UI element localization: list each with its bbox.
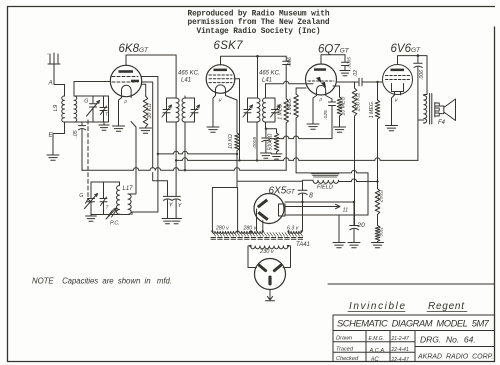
L9 label	[53, 104, 59, 111]
svg-text:30 KΩ: 30 KΩ	[147, 103, 153, 118]
IF2 primary coil	[257, 98, 260, 122]
heater wire	[302, 202, 304, 231]
6SK7 top cap wire	[221, 56, 287, 65]
tube 6Q7 envelope	[306, 64, 337, 95]
6V6 cathode ground wire	[392, 95, 395, 126]
resistor 10MEG wire	[333, 86, 340, 97]
ground 500K	[271, 154, 282, 159]
transformer primary 280V a	[212, 231, 236, 233]
svg-text:10 KΩ: 10 KΩ	[228, 134, 234, 149]
svg-text:500 KΩ: 500 KΩ	[268, 133, 274, 150]
cap 20 label	[357, 222, 366, 229]
IF1 primary coil	[176, 98, 179, 122]
mains lead left	[248, 246, 257, 268]
ground 50ohm	[372, 243, 384, 248]
cell traced date	[391, 347, 409, 353]
6K8 plate bar	[119, 70, 134, 73]
resistor 500K	[274, 133, 279, 154]
osc trimmer T2	[100, 182, 107, 215]
svg-text:.006: .006	[287, 57, 293, 67]
svg-text:#C: #C	[371, 357, 379, 363]
svg-text:.05: .05	[73, 130, 79, 137]
tube 6V6 label	[391, 43, 422, 55]
svg-text:10 MEG: 10 MEG	[341, 96, 347, 115]
svg-text:22-4-41: 22-4-41	[391, 347, 409, 353]
svg-text:L41: L41	[181, 78, 191, 84]
svg-text:μ: μ	[218, 97, 222, 102]
ground 30K	[140, 128, 152, 133]
cell corp	[417, 354, 493, 361]
resistor 30K	[143, 96, 148, 127]
G1 label	[84, 99, 88, 105]
resistor 250ohm	[375, 182, 380, 226]
coil L9 secondary	[74, 96, 77, 122]
svg-text:DRG. No. 64.: DRG. No. 64.	[420, 335, 476, 345]
6Q7 grid dashes	[308, 80, 334, 82]
capacitor .006 avc	[283, 56, 290, 99]
gang dashed link	[86, 120, 92, 203]
IF1 secondary top wire	[184, 96, 186, 98]
ground grid cap	[340, 71, 350, 76]
cell traced	[336, 347, 354, 353]
tube 6X5 label	[269, 186, 296, 197]
cell checked sig	[371, 357, 379, 363]
coil L17 secondary	[128, 194, 131, 215]
tube 6V6 envelope	[383, 65, 413, 95]
6V6 plate bar	[391, 69, 405, 72]
svg-text:250Ω: 250Ω	[379, 190, 385, 203]
50ohm label	[379, 227, 385, 237]
IF2 trimmer C1	[243, 105, 253, 117]
6SK7 grid dashes	[209, 75, 232, 83]
output transformer core	[430, 94, 432, 125]
capacitor Y1	[163, 196, 172, 218]
ground 6Q7	[307, 124, 319, 129]
plug pin 1	[257, 263, 267, 272]
wire grid top rail	[65, 82, 111, 123]
svg-text:21-2-47: 21-2-47	[391, 336, 409, 342]
dial lamp label	[343, 208, 349, 214]
1MEG avc label	[277, 102, 283, 120]
.0005 label	[252, 137, 258, 149]
capacitor 20	[350, 202, 359, 243]
trimmer T1	[100, 96, 107, 122]
field coil	[313, 180, 339, 183]
osc top rail	[91, 181, 120, 183]
ground 6SK7	[207, 127, 219, 132]
terminal E label	[49, 132, 54, 139]
field right wire	[339, 179, 378, 182]
transformer core	[211, 238, 303, 240]
svg-text:Vintage Radio Society (Inc): Vintage Radio Society (Inc)	[197, 28, 321, 36]
svg-text:Regent: Regent	[428, 301, 465, 312]
svg-text:NOTE Capacities are shown: NOTE Capacities are shown in mfd.	[32, 277, 172, 286]
svg-text:Checked: Checked	[336, 356, 359, 362]
dial lamp arrow	[285, 204, 340, 208]
svg-text:.0005: .0005	[252, 137, 258, 149]
TA41 label	[296, 242, 310, 248]
ground under T1	[99, 122, 109, 130]
IF2 primary loop	[248, 98, 258, 122]
6K8 grid dashes	[112, 77, 138, 83]
cell drawn date	[391, 336, 409, 342]
G1 arrow	[87, 101, 100, 117]
1MEG junction dot	[376, 81, 378, 83]
ground ct	[333, 243, 345, 248]
ground E	[47, 155, 59, 160]
ground Y2	[171, 219, 182, 224]
ground cap20	[348, 243, 360, 248]
svg-text:Invincible: Invincible	[349, 301, 405, 312]
svg-text:465 KC.: 465 KC.	[178, 71, 200, 77]
tube 6SK7 label	[214, 40, 244, 52]
field coil core	[312, 174, 340, 177]
cell traced sig	[369, 348, 386, 354]
tube 6K8 label	[119, 43, 150, 55]
.05 label	[73, 130, 79, 137]
osc grid wire	[128, 122, 136, 195]
svg-text:SCHEMATIC DIAGRAM MODEL 5M7: SCHEMATIC DIAGRAM MODEL 5M7	[337, 318, 490, 329]
T1 label	[105, 112, 109, 118]
wire to Y1	[153, 173, 168, 197]
6Q7 diode plates	[317, 77, 326, 87]
svg-text:Traced: Traced	[336, 347, 354, 353]
resistor 50ohm	[375, 226, 380, 243]
capacitor .02	[359, 78, 378, 86]
grid cap label	[347, 57, 352, 69]
resistor 1MEG diode	[294, 88, 306, 173]
IF2 label	[259, 71, 281, 84]
plug pin 2	[272, 263, 282, 272]
plug pin earth	[268, 276, 271, 286]
svg-text:8: 8	[309, 193, 313, 200]
.025 label	[323, 110, 329, 120]
250K label	[356, 93, 362, 112]
cap 8 label	[309, 193, 313, 200]
wire E lead	[53, 122, 65, 155]
IF1 primary bottom	[175, 122, 177, 196]
svg-text:L17: L17	[123, 186, 134, 192]
svg-text:Reproduced by Radio Museum wit: Reproduced by Radio Museum with	[188, 10, 330, 18]
svg-text:μ: μ	[394, 97, 398, 102]
ground 10MEG	[334, 127, 346, 132]
6Q7 plate wire	[336, 81, 358, 83]
ct ground wire	[338, 215, 340, 243]
6K8 cathode	[122, 85, 132, 94]
6X5 plate stem 2	[262, 221, 264, 232]
cell checked	[336, 356, 359, 362]
IF2 secondary loop	[266, 98, 276, 122]
svg-text:permission from The New Zealan: permission from The New Zealand	[188, 19, 330, 27]
speaker label F4	[438, 120, 446, 126]
6SK7 junction dot	[256, 55, 259, 58]
cell drg no	[420, 335, 476, 345]
IF1 primary loop	[167, 98, 177, 122]
output transformer tap wire	[418, 119, 424, 121]
L17 label	[123, 186, 134, 192]
svg-text:Y: Y	[178, 203, 182, 209]
field label	[317, 185, 333, 191]
svg-text:1 MEG.: 1 MEG.	[369, 101, 375, 119]
6V6 grid wire	[378, 81, 383, 83]
.02 label	[353, 70, 359, 77]
winding dots	[211, 230, 302, 232]
svg-text:G: G	[79, 193, 83, 199]
title schematic	[337, 318, 490, 329]
G2 arrow	[85, 194, 98, 209]
svg-text:1 MEG.: 1 MEG.	[287, 97, 293, 115]
mains lead right	[283, 246, 291, 268]
svg-text:A.C.A.: A.C.A.	[369, 348, 386, 354]
capacitor .006 plate	[414, 56, 423, 161]
resistor 10K	[235, 133, 240, 181]
500K label	[268, 133, 274, 150]
svg-text:20: 20	[357, 222, 366, 229]
IF1 label	[178, 71, 200, 84]
svg-text:Drawn: Drawn	[336, 336, 352, 342]
ground 6K8	[113, 126, 125, 131]
svg-text:L41: L41	[262, 78, 272, 84]
IF1 secondary coil	[182, 98, 185, 122]
tuning cap G1	[90, 96, 97, 122]
antenna	[48, 53, 65, 96]
6Q7 cathode ground wire	[313, 96, 317, 125]
230V label	[259, 249, 275, 255]
6X5 plate stem 1	[256, 209, 258, 231]
6X5 plate 2	[257, 211, 268, 221]
speaker	[435, 99, 456, 121]
junction dots bus	[157, 153, 379, 204]
6SK7 cathode resistor wire	[226, 96, 238, 134]
resistor 250K wire	[354, 82, 356, 88]
header text	[188, 10, 330, 35]
resistor 250K	[352, 88, 357, 116]
svg-text:Y: Y	[169, 203, 173, 209]
G2 label	[79, 193, 83, 199]
field left wire	[303, 180, 314, 190]
svg-text:.025: .025	[323, 110, 329, 120]
svg-text:μ: μ	[124, 99, 128, 104]
6K8 screen wire 1	[142, 77, 158, 154]
IF1 secondary loop	[185, 98, 195, 122]
resistor 10MEG	[337, 97, 342, 127]
capacitor Y2	[172, 196, 181, 218]
padder PC	[106, 208, 117, 219]
IF1 secondary bottom	[184, 122, 186, 170]
6V6 pin marks	[394, 92, 401, 103]
ground 6V6	[386, 126, 398, 131]
6Q7 cathode	[317, 85, 326, 92]
svg-text:465 KC.: 465 KC.	[259, 71, 281, 77]
coil L9 primary	[62, 96, 65, 122]
1MEG diode label	[287, 97, 293, 115]
6Q7 pin marks	[317, 93, 326, 102]
terminal A label	[48, 80, 53, 87]
tube 6SK7 envelope	[206, 65, 235, 94]
transformer hash	[213, 233, 303, 237]
IF2 secondary top wire	[266, 81, 314, 98]
6V6 cathode box	[392, 84, 404, 92]
osc bottom rail	[91, 214, 130, 216]
T2 label	[106, 205, 110, 211]
plug earth wire	[266, 290, 275, 301]
svg-text:6SK7: 6SK7	[214, 40, 244, 52]
svg-text:μ: μ	[319, 97, 323, 102]
IF1 trimmer C2	[190, 105, 200, 117]
6SK7 cathode ground wire	[213, 96, 216, 128]
svg-text:50Ω: 50Ω	[379, 227, 385, 237]
10K label	[228, 134, 234, 149]
resistor 1MEG avc	[284, 99, 289, 170]
ground .0005	[261, 153, 272, 158]
svg-text:.0005: .0005	[347, 57, 352, 69]
transformer secondary 230V	[251, 246, 289, 249]
6X5 plate 1	[257, 199, 268, 209]
.006 avc label	[287, 57, 293, 67]
10MEG label	[341, 96, 347, 115]
svg-text:L9: L9	[53, 104, 59, 111]
resistor 500K wire	[266, 129, 277, 133]
capacitor .025	[326, 96, 336, 106]
6X5 feed rail	[212, 181, 302, 231]
svg-text:280 v: 280 v	[243, 226, 257, 232]
svg-text:A: A	[48, 80, 53, 87]
6K8 cathode ground wire	[119, 98, 122, 126]
capacitor .05	[79, 122, 86, 130]
6SK7 plate bar	[214, 69, 228, 72]
tube 6X5 envelope	[254, 194, 284, 224]
6V6 top cap wire	[398, 56, 428, 95]
svg-text:.006: .006	[419, 70, 425, 80]
svg-text:P.C.: P.C.	[110, 221, 120, 227]
bus screen	[176, 158, 418, 161]
IF2 primary bottom	[256, 122, 258, 160]
svg-text:280 v: 280 v	[215, 226, 229, 232]
230V dots	[249, 245, 289, 247]
6Q7 plate bar	[314, 68, 326, 71]
280V label 1	[215, 226, 229, 232]
6SK7 pin marks	[216, 93, 226, 103]
diode load line	[270, 106, 332, 139]
cathode rail 2	[285, 214, 368, 216]
osc cap G2	[88, 182, 95, 215]
resistor 1MEG grid	[375, 82, 380, 182]
capacitor 8	[298, 181, 307, 202]
IF1 trimmer C1	[162, 105, 172, 117]
transformer primary 280V b	[239, 231, 263, 233]
cathode rail 1	[285, 201, 354, 203]
6SK7 cathode	[216, 85, 226, 93]
cell drawn	[336, 336, 352, 342]
1MEG grid label	[369, 101, 375, 119]
ground Y1	[162, 219, 173, 224]
IF2 trimmer C2	[271, 105, 281, 117]
svg-text:TA41: TA41	[296, 242, 310, 248]
svg-text:AKRAD RADIO CORP.: AKRAD RADIO CORP.	[417, 354, 493, 361]
svg-text:.02: .02	[353, 70, 359, 77]
wire .05 to bus	[81, 130, 83, 171]
250ohm label	[379, 190, 385, 203]
mains plug	[255, 259, 286, 290]
svg-text:FIELD: FIELD	[317, 185, 333, 191]
title name	[348, 301, 467, 312]
6K8 plate2 bar	[131, 80, 139, 82]
280V label 2	[243, 226, 257, 232]
6K8 screen wire 2	[142, 82, 153, 168]
output transformer primary	[424, 95, 427, 124]
title block frame	[328, 284, 495, 362]
6V6 grid dashes	[386, 76, 410, 80]
.006 plate label	[419, 70, 425, 80]
bus bias	[296, 170, 368, 215]
6Q7 top cap wire	[321, 55, 345, 64]
wire to osc cathode	[132, 154, 158, 215]
tube 6K8 envelope	[110, 65, 141, 96]
IF2 secondary coil	[263, 98, 266, 122]
Y2 label	[178, 203, 182, 209]
svg-text:F4: F4	[438, 120, 446, 126]
diode junction dot	[265, 128, 267, 130]
capacitor .0005	[262, 122, 271, 153]
PC label	[110, 221, 120, 227]
6V6 junction dot	[417, 54, 420, 57]
ground osc	[86, 215, 97, 222]
grid cap .0005 6Q7	[342, 55, 349, 71]
Y1 label	[169, 203, 173, 209]
cell checked date	[391, 357, 409, 363]
svg-text:230 v: 230 v	[259, 249, 275, 255]
6.3V label	[287, 226, 299, 232]
resistor 30K lead	[141, 84, 145, 96]
6K8 pin marks	[122, 95, 132, 104]
250K to cap20 wire	[354, 116, 356, 226]
cell drawn sig	[369, 336, 385, 342]
note text	[32, 277, 172, 286]
svg-text:E.M.G.: E.M.G.	[369, 336, 385, 342]
svg-text:11: 11	[343, 208, 349, 214]
bus AVC	[158, 151, 237, 154]
svg-text:G: G	[84, 99, 88, 105]
coil L17 primary	[117, 182, 120, 215]
bus B+	[82, 130, 286, 170]
tube 6Q7 label	[318, 44, 350, 56]
6X5 cathode tab	[279, 204, 286, 216]
transformer heater 6.3V	[289, 231, 302, 233]
svg-text:22-4-47: 22-4-47	[391, 357, 409, 363]
svg-text:250 KΩ: 250 KΩ	[356, 93, 362, 112]
IF2 primary top wire	[257, 56, 259, 98]
30K label	[147, 103, 153, 118]
6SK7 grid return wire	[234, 79, 240, 161]
6K8 top cap wire	[126, 55, 176, 98]
